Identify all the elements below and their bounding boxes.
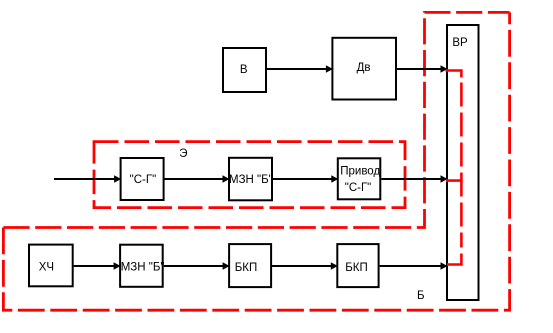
svg-text:"С-Г": "С-Г" <box>130 174 157 186</box>
svg-text:Привод: Привод <box>340 165 380 177</box>
svg-text:В: В <box>240 64 248 76</box>
svg-text:МЗН "Б": МЗН "Б" <box>121 261 165 273</box>
svg-text:"С-Г": "С-Г" <box>345 182 372 194</box>
svg-text:ВР: ВР <box>452 37 468 49</box>
svg-text:БКП: БКП <box>235 262 258 274</box>
svg-text:Б: Б <box>417 290 425 302</box>
svg-text:Э: Э <box>179 148 187 160</box>
svg-text:МЗН "Б": МЗН "Б" <box>229 174 273 186</box>
svg-text:Дв: Дв <box>357 62 371 74</box>
svg-text:ХЧ: ХЧ <box>39 261 54 273</box>
svg-text:БКП: БКП <box>345 262 368 274</box>
